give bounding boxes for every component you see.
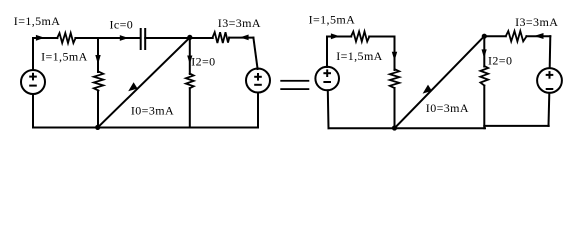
wire: left circuit right vertical (bottom) bbox=[257, 93, 259, 128]
node dot (right circuit top junction) bbox=[482, 34, 487, 39]
arrow I3 (top-right, left) bbox=[240, 35, 249, 41]
svg-text:I0=3mA: I0=3mA bbox=[426, 101, 469, 115]
arrow I (right circuit top-left, right) bbox=[331, 33, 340, 39]
wire: left circuit top rail (right of capacitor) bbox=[145, 37, 213, 39]
wire: right circuit left vertical (top) bbox=[326, 37, 328, 68]
node dot (right circuit bottom junction) bbox=[392, 125, 397, 130]
source V3 (right circuit, left) bbox=[315, 67, 339, 91]
svg-text:I3=3mA: I3=3mA bbox=[515, 15, 558, 29]
node dot (left circuit bottom junction) bbox=[95, 125, 100, 130]
wire: right circuit bottom rail (right part, slightly higher) bbox=[484, 125, 548, 127]
svg-text:I2=0: I2=0 bbox=[191, 54, 215, 68]
equals sign between circuits bbox=[280, 80, 309, 90]
source V1 (left circuit, left) bbox=[21, 70, 45, 94]
arrow I3 (right circuit, left) bbox=[534, 33, 544, 39]
wire: left circuit top rail (left of capacitor) bbox=[33, 37, 57, 39]
wire: right circuit node2 vertical bbox=[483, 36, 485, 66]
arrow I0 (right diagonal, down-left) bbox=[423, 85, 432, 94]
svg-text:I0=3mA: I0=3mA bbox=[131, 103, 174, 117]
arrow I (top-left, right) bbox=[36, 35, 45, 41]
svg-text:I3=3mA: I3=3mA bbox=[218, 16, 261, 30]
svg-text:Ic=0: Ic=0 bbox=[110, 18, 134, 32]
source V2 (left circuit, right) bbox=[246, 69, 270, 93]
resistor R4 (I2=0 vertical) bbox=[186, 74, 194, 89]
wire: left circuit bottom rail bbox=[33, 127, 258, 129]
resistor R8 (I3=3mA right circuit) bbox=[506, 31, 527, 41]
svg-text:I2=0: I2=0 bbox=[488, 54, 512, 68]
svg-text:I=1,5mA: I=1,5mA bbox=[41, 50, 88, 64]
node dot (left circuit top junction) bbox=[187, 35, 192, 40]
arrow I=1,5mA (down, node1 branch) bbox=[95, 55, 100, 65]
resistor R7 (I2=0 vertical, right circuit) bbox=[480, 66, 488, 86]
wire: branch node2 vertical (x=189.8) bbox=[189, 38, 191, 74]
arrow I2 (down, node2 branch) bbox=[187, 56, 192, 65]
arrow I0 (diagonal, down-left) bbox=[128, 82, 137, 91]
resistor R2 (I=1,5mA vertical) bbox=[94, 72, 104, 91]
wire: node1 branch lower bbox=[97, 91, 99, 128]
wire: node2 branch lower bbox=[189, 88, 191, 127]
resistor R5 (I=1,5mA top, right circuit) bbox=[351, 32, 369, 42]
resistor R6 (I=1,5mA vertical, right circuit) bbox=[390, 69, 400, 88]
wire: right circuit right vertical (bottom) bbox=[548, 93, 551, 126]
wire: right circuit node1 branch lower bbox=[394, 88, 396, 128]
wire: right circuit top rail (right) bbox=[484, 35, 506, 37]
wire: right circuit node2 branch lower bbox=[483, 86, 485, 129]
resistor R1 (I=1,5mA top) bbox=[57, 33, 75, 43]
svg-text:I=1,5mA: I=1,5mA bbox=[14, 14, 61, 28]
wire: right circuit right vertical (top) bbox=[549, 36, 552, 68]
wire: left circuit left vertical (top) bbox=[32, 38, 34, 70]
svg-text:I=1,5mA: I=1,5mA bbox=[336, 49, 383, 63]
resistor R3 (I3=3mA left circuit) bbox=[213, 32, 230, 43]
source V4 (right circuit, right) bbox=[537, 68, 562, 93]
capacitor C (Ic=0) bbox=[141, 29, 146, 49]
wire: right circuit left vertical (bottom) bbox=[327, 90, 330, 128]
arrow I=1,5mA (down, right circuit branch) bbox=[392, 52, 397, 61]
svg-text:I=1,5mA: I=1,5mA bbox=[309, 12, 356, 26]
wire: right circuit bottom rail (left part) bbox=[329, 127, 486, 129]
wire: right circuit top rail (left) bbox=[327, 36, 351, 38]
wire: diagonal I0 (left circuit) bbox=[98, 38, 190, 128]
wire: left circuit right vertical (top) bbox=[253, 38, 257, 69]
wire: right circuit node1 vertical bbox=[394, 37, 396, 71]
wire: left circuit left vertical (bottom) bbox=[32, 94, 34, 128]
wire: branch node1 vertical (x=98) bbox=[97, 38, 99, 72]
arrow Ic (before capacitor, right) bbox=[120, 35, 129, 41]
arrow I2 (down, right circuit) bbox=[482, 49, 487, 58]
wire: diagonal I0 (right circuit) bbox=[395, 36, 485, 128]
